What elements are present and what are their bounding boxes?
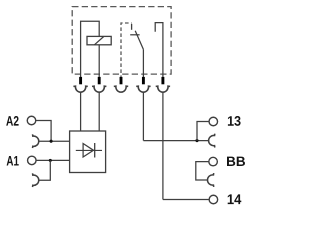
socket 5: [156, 86, 170, 92]
dashed internal link to pin 3: [121, 23, 132, 79]
wire A2 circle right: [36, 121, 51, 142]
terminal A1 screw circle: [28, 156, 37, 165]
junction A2: [50, 140, 53, 143]
socket A1 (open left): [33, 173, 39, 187]
socket BB (open right): [208, 173, 214, 187]
pin 5: [161, 77, 164, 84]
wire to 14: [163, 199, 209, 201]
BB bracket wire: [196, 162, 209, 180]
wire socket5 down: [162, 92, 164, 199]
wire socket1 to bridge box: [80, 92, 82, 131]
socket 13 (open right): [209, 134, 215, 148]
wire coil loop A2 side: [81, 21, 100, 77]
wire pin4 row to 13: [143, 140, 208, 142]
socket 4: [136, 86, 150, 92]
terminal BB label: [227, 157, 245, 166]
pin 2: [98, 77, 101, 84]
terminal BB screw circle: [209, 157, 218, 166]
pin 1: [79, 77, 82, 84]
junction A1: [49, 159, 52, 162]
wire A1 row into box: [36, 159, 70, 161]
terminal 13 screw circle: [209, 117, 218, 126]
junction 13: [195, 139, 198, 142]
relay coil K1 box: [87, 36, 111, 44]
contact 14 hook: [155, 23, 163, 77]
fixed contact foot: [130, 34, 139, 36]
wire socket4 down: [142, 92, 144, 140]
wire socket2 to bridge box: [98, 92, 100, 131]
input module box: [70, 131, 106, 173]
terminal A1 label: [7, 156, 19, 165]
diode V1 triangle: [83, 144, 93, 158]
wire coil bottom to pin 2: [98, 45, 100, 77]
terminal 14 screw circle: [209, 195, 218, 204]
wire up to 13 circle: [197, 122, 209, 141]
socket 3: [114, 86, 128, 92]
relay enclosure K1 (dashed): [72, 7, 171, 75]
terminal A2 screw circle: [27, 116, 36, 125]
pin 4: [142, 77, 145, 84]
wire blade to pin 4: [142, 49, 144, 77]
diode V1 lead: [76, 149, 102, 151]
diode V1 cathode bar: [94, 143, 96, 158]
pin 3: [120, 77, 123, 84]
terminal A2 label: [6, 116, 18, 126]
wire A1 to socket: [39, 160, 51, 180]
socket 1: [73, 86, 87, 92]
socket 2: [92, 86, 106, 92]
socket A2 (open left): [33, 134, 39, 148]
terminal 13 label: [228, 116, 241, 126]
terminal 14 label: [228, 194, 242, 204]
fixed contact stub: [131, 24, 133, 30]
contact blade: [135, 31, 143, 50]
wire A2 row into box: [39, 140, 70, 142]
coil diagonal: [94, 36, 104, 44]
